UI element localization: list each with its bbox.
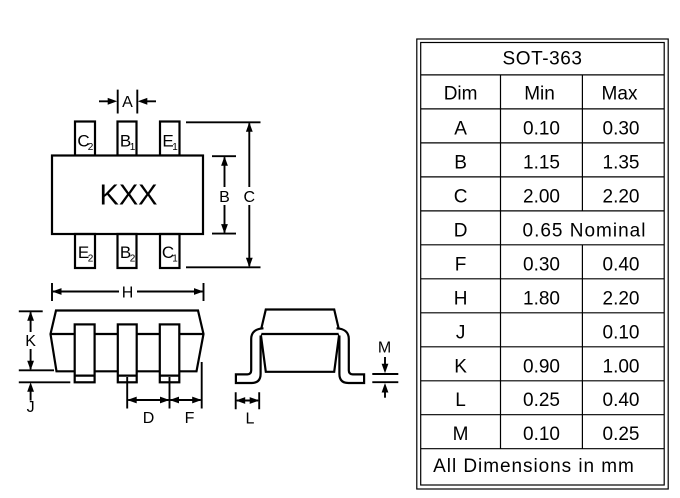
dimension A ticks (118, 90, 138, 114)
svg-text:C: C (454, 186, 468, 207)
dimension L arrows (237, 400, 259, 402)
package body (end view) (261, 310, 340, 372)
dimension A arrows (99, 100, 156, 102)
package body (side view) (51, 311, 204, 372)
dimension K ticks (19, 311, 54, 370)
svg-text:L: L (455, 390, 466, 411)
table column lines (501, 75, 583, 449)
svg-text:1.80: 1.80 (523, 288, 560, 309)
dimension K arrow (30, 312, 32, 369)
svg-text:0.10: 0.10 (603, 322, 640, 343)
package body (top view) (52, 156, 203, 235)
dimension H arrows (53, 291, 203, 293)
lead 2 (side view) (118, 324, 137, 382)
gull-wing lead (end view left) (236, 328, 264, 383)
dimension F arrows (171, 399, 201, 401)
dimension C arrow (248, 123, 250, 266)
svg-text:H: H (122, 284, 134, 301)
svg-text:F: F (455, 254, 467, 275)
svg-text:B: B (219, 189, 230, 206)
dimension J arrow (30, 391, 32, 401)
svg-text:D: D (454, 220, 468, 241)
pin C1 (top view) (160, 234, 180, 268)
dimension M down arrow (384, 357, 386, 365)
svg-text:2: 2 (130, 254, 136, 265)
svg-text:0.10: 0.10 (523, 118, 560, 139)
dimension D arrows (128, 399, 168, 401)
svg-text:M: M (453, 424, 469, 445)
parting line (side view) (51, 333, 204, 335)
extension line body right (201, 362, 203, 409)
svg-text:0.40: 0.40 (603, 390, 640, 411)
svg-text:0.25: 0.25 (523, 390, 560, 411)
table outer border (417, 39, 668, 489)
table inner border (421, 43, 665, 486)
pin E2 (top view) (75, 234, 95, 268)
svg-text:2.20: 2.20 (603, 186, 640, 207)
svg-text:B: B (454, 152, 467, 173)
svg-text:1.15: 1.15 (523, 152, 560, 173)
svg-text:0.90: 0.90 (523, 356, 560, 377)
dimension C extension lines (186, 122, 261, 267)
svg-text:Dim: Dim (444, 84, 478, 105)
dimension M up arrow (384, 391, 386, 398)
svg-text:All Dimensions in mm: All Dimensions in mm (433, 456, 635, 477)
svg-text:Max: Max (602, 84, 638, 105)
svg-text:2.20: 2.20 (603, 288, 640, 309)
svg-text:F: F (185, 410, 195, 427)
svg-text:L: L (246, 411, 255, 428)
svg-text:D: D (143, 410, 155, 427)
svg-text:Min: Min (524, 84, 555, 105)
svg-text:0.25: 0.25 (603, 424, 640, 445)
svg-text:0.65 Nominal: 0.65 Nominal (523, 220, 647, 241)
svg-text:1.00: 1.00 (603, 356, 640, 377)
dimension M lines (372, 374, 398, 382)
extension line lead3 centre (169, 377, 171, 409)
svg-text:0.30: 0.30 (523, 254, 560, 275)
svg-text:H: H (454, 288, 468, 309)
lead 3 (side view) (160, 324, 180, 382)
svg-text:0.40: 0.40 (603, 254, 640, 275)
svg-text:KXX: KXX (99, 180, 157, 212)
dimension B arrow (224, 157, 226, 232)
svg-text:0.10: 0.10 (523, 424, 560, 445)
svg-text:K: K (25, 333, 36, 350)
svg-text:2.00: 2.00 (523, 186, 560, 207)
svg-text:1.35: 1.35 (603, 152, 640, 173)
dimension B ticks (212, 156, 236, 233)
svg-text:K: K (454, 356, 467, 377)
svg-text:2: 2 (88, 142, 94, 153)
table row lines (421, 75, 665, 449)
pin B1 (top view) (118, 122, 137, 156)
svg-text:A: A (122, 94, 133, 111)
lead 1 (side view) (75, 324, 95, 382)
extension line lead2 centre (126, 377, 128, 409)
svg-text:J: J (456, 322, 466, 343)
svg-text:0.30: 0.30 (603, 118, 640, 139)
svg-text:J: J (27, 399, 35, 416)
parting line (end view) (261, 333, 340, 335)
dimension L ticks (236, 392, 260, 409)
pin C2 (top view) (75, 122, 95, 156)
svg-text:A: A (454, 118, 467, 139)
pin E1 (top view) (160, 122, 180, 156)
svg-text:SOT-363: SOT-363 (503, 49, 583, 70)
dimension H ticks (52, 283, 204, 301)
pin B2 (top view) (118, 234, 137, 268)
svg-text:1: 1 (172, 254, 178, 265)
gull-wing lead (end view right) (337, 328, 365, 383)
svg-text:1: 1 (172, 142, 178, 153)
svg-text:M: M (378, 340, 391, 357)
dimension J line (19, 381, 71, 383)
svg-text:1: 1 (130, 142, 136, 153)
svg-text:2: 2 (88, 254, 94, 265)
svg-text:C: C (244, 189, 256, 206)
